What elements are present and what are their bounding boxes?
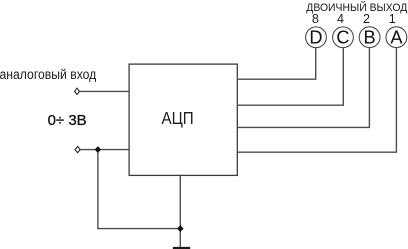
wire: output bit 8 to D xyxy=(237,48,315,79)
svg-text:1: 1 xyxy=(389,12,396,26)
input terminal 2 (open diamond) xyxy=(75,146,80,152)
svg-text:0÷ 3В: 0÷ 3В xyxy=(48,112,87,129)
wire: analog input to ADC xyxy=(79,90,129,92)
svg-text:C: C xyxy=(336,28,349,48)
ADC block U1 xyxy=(129,64,237,175)
svg-text:2: 2 xyxy=(363,12,370,26)
terminal D (circle) xyxy=(306,27,327,48)
svg-text:АЦП: АЦП xyxy=(162,108,194,128)
terminal A (circle) xyxy=(386,27,407,48)
ground symbol xyxy=(173,247,190,249)
svg-text:B: B xyxy=(364,28,376,48)
svg-text:аналоговый вход: аналоговый вход xyxy=(0,67,96,82)
wire: output bit 1 to A xyxy=(237,48,396,153)
wire: ground input to ADC xyxy=(80,149,129,151)
junction dot (bottom rail) xyxy=(178,226,184,232)
wire: ADC bottom to ground xyxy=(179,175,181,247)
svg-text:4: 4 xyxy=(337,12,344,26)
svg-text:A: A xyxy=(390,28,403,48)
terminal B (circle) xyxy=(359,27,380,48)
input terminal 1 (open diamond) xyxy=(75,88,80,94)
wire: output bit 2 to B xyxy=(237,48,369,128)
svg-text:D: D xyxy=(309,28,322,48)
wire: junction drop to bottom rail xyxy=(98,150,180,229)
junction dot (input) xyxy=(95,147,101,153)
wire: output bit 4 to C xyxy=(237,48,343,105)
svg-text:8: 8 xyxy=(312,12,319,26)
terminal C (circle) xyxy=(333,27,354,48)
